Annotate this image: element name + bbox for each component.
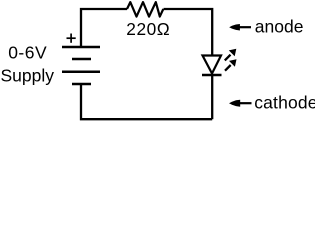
battery BT1 plate long top (+) (62, 46, 100, 49)
svg-text:0-6V: 0-6V (8, 43, 47, 63)
svg-text:220Ω: 220Ω (126, 19, 170, 39)
resistor R1 220 ohm zigzag (127, 2, 163, 17)
wire bottom-left segment (81, 84, 212, 119)
LED D1 triangle (203, 56, 222, 74)
battery BT1 plate short 2 (-) (72, 83, 91, 86)
battery BT1 plate long 2 (62, 71, 100, 74)
cathode pointer arrow (229, 100, 252, 107)
LED D1 cathode bar (202, 74, 222, 77)
wire bottom-right segment (211, 75, 213, 119)
svg-text:anode: anode (255, 17, 304, 37)
battery BT1 plate short 1 (72, 58, 91, 61)
svg-text:cathode: cathode (254, 93, 315, 113)
wire top-left segment (81, 9, 127, 48)
+ polarity mark (67, 34, 76, 43)
supply label 0-6V Supply (1, 43, 55, 86)
LED light emission arrow lower (225, 59, 237, 70)
anode pointer arrow (229, 24, 251, 31)
wire top-right segment (164, 9, 213, 55)
LED light emission arrow upper (225, 49, 237, 61)
svg-text:Supply: Supply (1, 66, 55, 86)
